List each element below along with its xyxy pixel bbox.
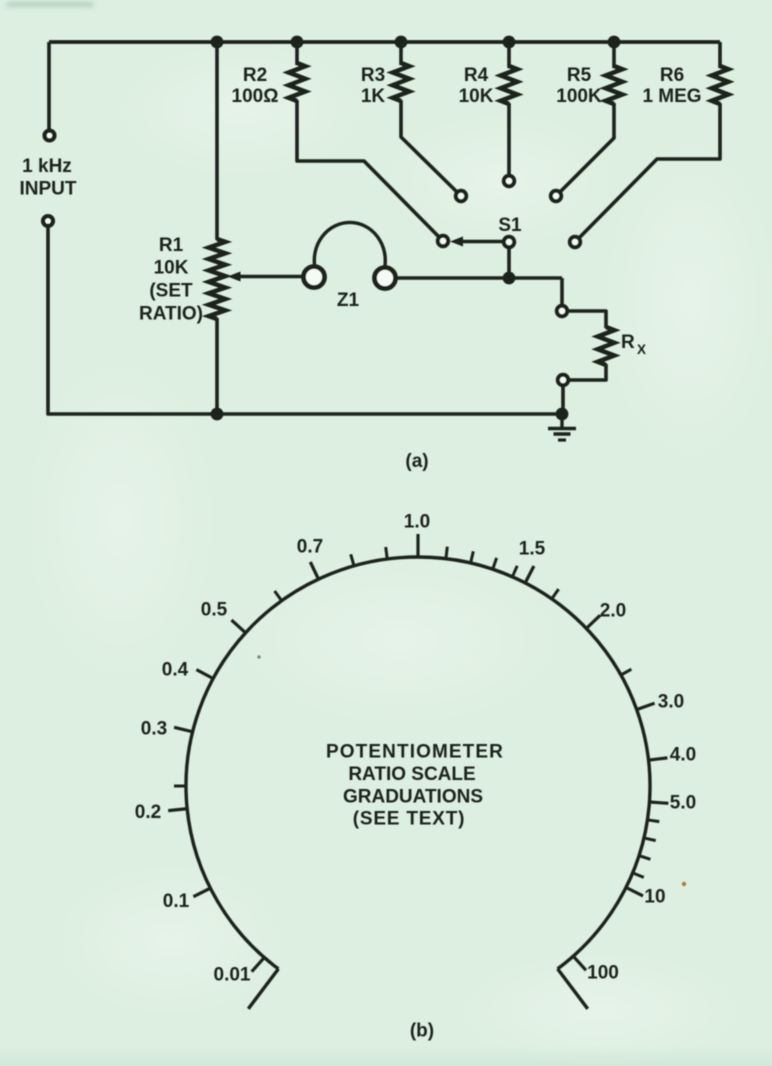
svg-text:(a): (a) [405,451,428,472]
svg-text:POTENTIOMETER: POTENTIOMETER [326,742,504,763]
svg-text:100Ω: 100Ω [232,86,279,107]
svg-text:(b): (b) [410,1021,434,1042]
svg-text:10K: 10K [154,258,189,279]
svg-text:RATIO SCALE: RATIO SCALE [348,764,475,785]
svg-text:R6: R6 [660,65,684,86]
svg-text:1.0: 1.0 [404,512,430,533]
svg-text:1K: 1K [361,86,386,107]
svg-text:INPUT: INPUT [20,179,77,200]
svg-text:GRADUATIONS: GRADUATIONS [343,787,483,808]
svg-text:3.0: 3.0 [658,692,684,713]
svg-text:R1: R1 [159,235,184,256]
svg-text:0.2: 0.2 [135,802,161,823]
svg-text:R3: R3 [361,65,385,86]
svg-text:10: 10 [644,887,665,908]
svg-text:100: 100 [587,963,619,984]
svg-text:0.3: 0.3 [141,719,167,740]
svg-text:1.5: 1.5 [519,539,546,560]
svg-text:RATIO): RATIO) [139,304,203,325]
svg-text:X: X [637,342,646,357]
svg-text:10K: 10K [459,86,494,107]
svg-text:0.4: 0.4 [162,660,189,681]
svg-text:1 kHz: 1 kHz [22,156,72,177]
svg-text:100K: 100K [556,86,602,107]
svg-text:5.0: 5.0 [670,793,696,814]
svg-text:Z1: Z1 [337,290,360,311]
svg-text:R: R [621,332,635,353]
svg-text:R2: R2 [243,65,267,86]
svg-text:S1: S1 [498,215,522,236]
svg-text:(SEE TEXT): (SEE TEXT) [353,809,466,830]
svg-text:0.1: 0.1 [163,891,190,912]
svg-text:R5: R5 [567,65,592,86]
svg-text:0.5: 0.5 [201,600,228,621]
svg-text:(SET: (SET [149,281,193,302]
svg-text:2.0: 2.0 [600,601,626,622]
svg-text:R4: R4 [464,65,489,86]
svg-text:4.0: 4.0 [670,745,696,766]
svg-text:0.7: 0.7 [297,537,323,558]
svg-text:0.01: 0.01 [214,965,251,986]
svg-text:1 MEG: 1 MEG [642,86,701,107]
